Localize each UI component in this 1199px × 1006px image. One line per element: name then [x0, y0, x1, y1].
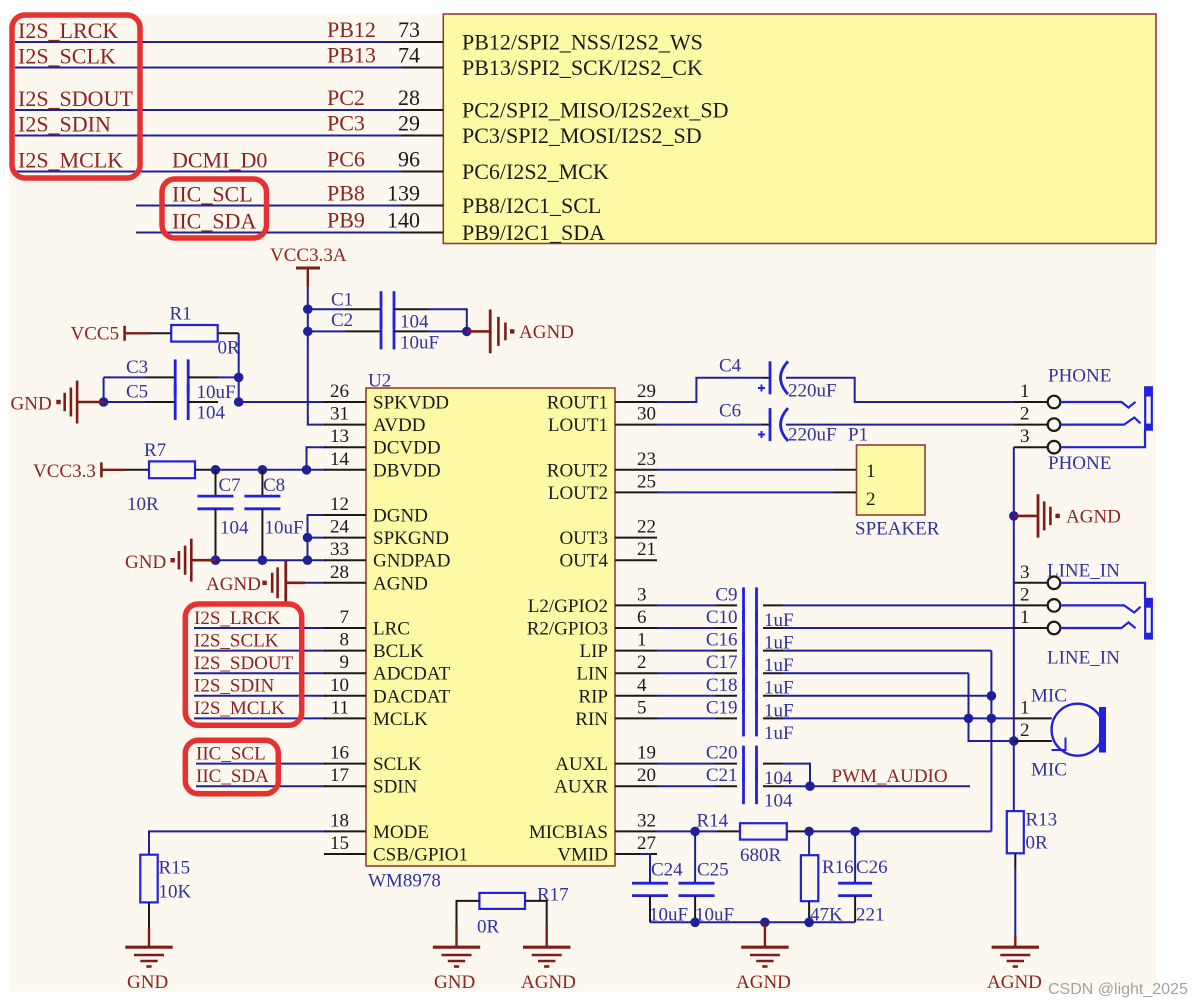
svg-text:GND: GND	[125, 552, 166, 573]
junction GND node	[99, 397, 109, 407]
resistor R7	[125, 440, 216, 515]
svg-text:30: 30	[637, 404, 656, 425]
junction C25 top	[690, 827, 700, 837]
svg-text:AGND: AGND	[1066, 507, 1121, 528]
svg-text:C5: C5	[126, 382, 148, 403]
svg-text:R17: R17	[537, 885, 569, 906]
pin name label PC6	[327, 147, 365, 172]
pin 28 AGND (U2 left)	[324, 562, 428, 595]
svg-text:PB12/SPI2_NSS/I2S2_WS: PB12/SPI2_NSS/I2S2_WS	[462, 30, 703, 55]
svg-text:RIN: RIN	[575, 709, 608, 730]
pin 4 RIP (U2 right)	[578, 675, 657, 708]
wire cap row 9	[783, 604, 1014, 606]
wire PWM_AUDIO	[783, 785, 970, 787]
pin 9 ADCDAT (U2 left)	[324, 652, 450, 685]
junction C1 left	[303, 304, 313, 314]
red highlight box (IIC chip side)	[185, 740, 278, 794]
ground AGND (R17)	[523, 946, 570, 949]
svg-text:C9: C9	[715, 584, 737, 605]
capacitor C3	[104, 357, 239, 395]
pin 28 (PC2/SPI2_MISO/I2S2ext_SD)	[398, 85, 729, 123]
svg-text:R7: R7	[144, 440, 166, 461]
svg-text:31: 31	[330, 404, 349, 425]
junction R7 node b	[258, 465, 268, 475]
svg-text:LIP: LIP	[580, 641, 609, 662]
svg-text:CSB/GPIO1: CSB/GPIO1	[373, 845, 468, 866]
wire net row PB13	[15, 67, 401, 69]
junction SPKGND	[303, 533, 313, 543]
wire R1 to C3/C5 node	[238, 333, 240, 402]
svg-text:PB8/I2C1_SCL: PB8/I2C1_SCL	[462, 193, 601, 218]
svg-text:104: 104	[220, 518, 249, 539]
ground GND (below C7/C8)	[125, 539, 216, 582]
wire R15 to ground	[148, 902, 150, 946]
wire net row PB8	[136, 205, 401, 207]
svg-text:33: 33	[330, 539, 349, 560]
resistor R17 (0R)	[477, 885, 569, 938]
svg-text:C25: C25	[697, 860, 729, 881]
svg-text:SPKGND: SPKGND	[373, 528, 449, 549]
svg-text:C1: C1	[331, 290, 353, 311]
svg-text:12: 12	[330, 494, 349, 515]
svg-text:220uF: 220uF	[788, 381, 837, 402]
svg-text:1: 1	[1020, 381, 1030, 402]
op-chip U2 WM8978 body	[366, 371, 615, 892]
svg-text:9: 9	[340, 652, 350, 673]
pin 17 SDIN (U2 left)	[324, 765, 418, 798]
svg-text:8: 8	[340, 630, 350, 651]
svg-text:18: 18	[330, 810, 349, 831]
net label IIC_SCL (chip side)	[196, 743, 266, 764]
svg-text:C26: C26	[856, 857, 888, 878]
svg-text:PB12: PB12	[327, 17, 376, 42]
pin 23 ROUT2 (U2 right)	[547, 449, 657, 482]
wire cap row 10	[783, 627, 1014, 629]
svg-text:PB13: PB13	[327, 43, 376, 68]
svg-text:PHONE: PHONE	[1048, 366, 1111, 387]
svg-text:DCVDD: DCVDD	[373, 438, 441, 459]
svg-text:LOUT2: LOUT2	[548, 483, 608, 504]
svg-text:104: 104	[400, 312, 429, 333]
junction RIN a	[964, 714, 974, 724]
svg-text:R2/GPIO3: R2/GPIO3	[527, 619, 608, 640]
svg-text:10uF: 10uF	[197, 382, 236, 403]
wire SPKGND stub	[308, 537, 327, 539]
svg-text:PC2/SPI2_MISO/I2S2ext_SD: PC2/SPI2_MISO/I2S2ext_SD	[462, 98, 729, 123]
svg-text:C17: C17	[706, 652, 738, 673]
svg-text:C18: C18	[706, 675, 738, 696]
svg-text:ADCDAT: ADCDAT	[373, 664, 450, 685]
svg-text:DBVDD: DBVDD	[373, 460, 441, 481]
svg-text:29: 29	[398, 111, 420, 136]
wire bias bottom row	[650, 921, 855, 923]
wire cap row 11	[783, 650, 991, 652]
svg-text:IIC_SCL: IIC_SCL	[196, 743, 266, 764]
svg-text:1uF: 1uF	[764, 723, 794, 744]
svg-text:I2S_MCLK: I2S_MCLK	[194, 698, 285, 719]
wire I2S_SDOUT	[194, 672, 326, 674]
wire MICBIAS right	[809, 830, 991, 832]
wire C20 to PWM node	[783, 764, 810, 787]
wire GNDPAD row	[216, 559, 327, 561]
svg-text:PC6: PC6	[327, 147, 365, 172]
svg-text:C19: C19	[706, 697, 738, 718]
junction R7 node a	[211, 465, 221, 475]
svg-text:10R: 10R	[127, 494, 159, 515]
svg-text:AGND: AGND	[736, 972, 791, 993]
resistor R15	[140, 855, 191, 903]
svg-text:AGND: AGND	[987, 972, 1042, 993]
svg-text:ROUT2: ROUT2	[547, 460, 608, 481]
svg-text:LOUT1: LOUT1	[548, 415, 608, 436]
svg-text:PB8: PB8	[327, 181, 365, 206]
capacitor C2	[308, 310, 428, 350]
wire IIC_SDA	[196, 785, 326, 787]
wire MICBIAS left	[657, 830, 695, 832]
svg-text:MODE: MODE	[373, 822, 429, 843]
svg-text:C20: C20	[706, 743, 738, 764]
red highlight box (I2S chip side)	[185, 604, 301, 725]
svg-text:C21: C21	[706, 765, 738, 786]
svg-text:R15: R15	[159, 858, 191, 879]
pin 29 (PC3/SPI2_MOSI/I2S2_SD)	[398, 111, 702, 149]
junction bottom AGND	[760, 918, 770, 928]
junction R16 top	[804, 827, 814, 837]
svg-text:VCC5: VCC5	[71, 324, 120, 345]
junction C26 top	[850, 827, 860, 837]
wire cap row 13	[783, 695, 991, 697]
svg-text:PC3/SPI2_MOSI/I2S2_SD: PC3/SPI2_MOSI/I2S2_SD	[462, 123, 702, 148]
svg-text:AGND: AGND	[206, 574, 261, 595]
wire IIC_SCL	[196, 763, 326, 765]
junction PWM	[805, 781, 815, 791]
svg-text:3: 3	[1020, 562, 1030, 583]
svg-text:PC2: PC2	[327, 85, 365, 110]
pin 26 SPKVDD (U2 left)	[324, 381, 449, 414]
pin 7 LRC (U2 left)	[324, 607, 410, 640]
svg-text:23: 23	[637, 449, 656, 470]
svg-text:MCLK: MCLK	[373, 709, 428, 730]
svg-text:PWM_AUDIO: PWM_AUDIO	[832, 766, 948, 787]
wire I2S_MCLK	[194, 717, 326, 719]
mic pin 2	[1014, 720, 1052, 741]
pin 29 ROUT1 (U2 right)	[547, 381, 657, 414]
pin 20 AUXR (U2 right)	[554, 765, 657, 798]
wire net row PC3	[15, 135, 401, 137]
connector P1 SPEAKER	[848, 425, 940, 540]
svg-text:R1: R1	[170, 304, 192, 325]
capacitor C26 (221)	[838, 831, 888, 925]
wire PHONE3/LINEIN3 vertical	[1013, 447, 1015, 811]
svg-text:28: 28	[330, 562, 349, 583]
svg-text:PB9: PB9	[327, 208, 365, 233]
wire AGND pin stub	[305, 582, 326, 584]
svg-text:WM8978: WM8978	[368, 871, 441, 892]
wire DBVDD row	[216, 469, 327, 471]
svg-text:1: 1	[1020, 697, 1030, 718]
ground AGND (by C1/C2)	[467, 310, 574, 354]
svg-text:SDIN: SDIN	[373, 777, 418, 798]
capacitor C21 (104)	[657, 765, 793, 812]
svg-text:RIP: RIP	[578, 686, 608, 707]
svg-text:10: 10	[330, 675, 349, 696]
svg-text:7: 7	[340, 607, 350, 628]
svg-text:GND: GND	[11, 394, 52, 415]
svg-text:15: 15	[330, 833, 349, 854]
svg-text:IIC_SCL: IIC_SCL	[172, 182, 253, 207]
svg-text:L2/GPIO2: L2/GPIO2	[528, 596, 608, 617]
svg-text:SCLK: SCLK	[373, 754, 422, 775]
svg-text:GNDPAD: GNDPAD	[373, 551, 450, 572]
wire DGND/SPKGND bracket	[308, 515, 327, 560]
junction bottom R16	[804, 918, 814, 928]
pin name label PC2	[327, 85, 365, 110]
red highlight box (I2S signals top)	[12, 15, 140, 178]
svg-text:I2S_MCLK: I2S_MCLK	[18, 148, 123, 173]
wire ROUT1 to C4	[657, 378, 762, 402]
resistor R14 (680R)	[695, 810, 809, 866]
svg-text:LIN: LIN	[576, 664, 608, 685]
capacitor C16 (1uF)	[657, 630, 794, 677]
svg-text:20: 20	[637, 765, 656, 786]
MCU port block (STM32 pins)	[443, 14, 1156, 244]
ground GND (left of C3/C5)	[11, 381, 104, 424]
pin 27 VMID (U2 right)	[557, 833, 657, 866]
wire branch to DCVDD	[307, 447, 327, 470]
jack PHONE contacts	[1060, 402, 1145, 447]
capacitor C17 (1uF)	[657, 652, 794, 699]
svg-text:PC6/I2S2_MCK: PC6/I2S2_MCK	[462, 159, 609, 184]
wire R17 left leg	[457, 901, 480, 947]
svg-text:221: 221	[856, 905, 885, 926]
net label I2S_SCLK (chip side)	[194, 630, 279, 651]
svg-text:0R: 0R	[218, 338, 241, 359]
pin 2 LIN (U2 right)	[576, 652, 657, 685]
svg-text:AGND: AGND	[521, 972, 576, 993]
svg-text:16: 16	[330, 743, 349, 764]
junction AGND tap	[1009, 511, 1019, 521]
pin 74 (PB13/SPI2_SCK/I2S2_CK)	[398, 43, 703, 81]
svg-text:OUT4: OUT4	[559, 551, 608, 572]
ground GND (R15)	[125, 946, 172, 949]
junction C2 left	[303, 327, 313, 337]
capacitor C9 (1uF)	[657, 584, 794, 631]
svg-text:220uF: 220uF	[788, 425, 837, 446]
svg-text:74: 74	[398, 43, 420, 68]
jack LINE_IN contacts	[1060, 583, 1145, 628]
wire I2S_SCLK	[194, 650, 326, 652]
net label I2S_SCLK	[18, 44, 116, 69]
pin name label PB8	[327, 181, 365, 206]
svg-text:19: 19	[637, 743, 656, 764]
pin 15 CSB/GPIO1 (U2 left)	[324, 833, 468, 866]
svg-text:139: 139	[387, 181, 420, 206]
wire net row PB9	[136, 232, 401, 234]
svg-text:AUXL: AUXL	[555, 754, 608, 775]
svg-text:AVDD: AVDD	[373, 415, 425, 436]
svg-text:SPKVDD: SPKVDD	[373, 393, 449, 414]
pin 31 AVDD (U2 left)	[324, 404, 425, 437]
svg-text:10uF: 10uF	[265, 518, 304, 539]
power VCC5	[71, 324, 151, 345]
net label I2S_MCLK	[18, 148, 123, 173]
svg-text:DCMI_D0: DCMI_D0	[172, 148, 267, 173]
wire cap row 14	[783, 717, 1014, 719]
pin 18 MODE (U2 left)	[324, 810, 429, 843]
svg-text:U2: U2	[368, 371, 391, 392]
pin 10 DACDAT (U2 left)	[324, 675, 450, 708]
svg-text:22: 22	[637, 517, 656, 538]
wire LOUT1 row	[657, 424, 762, 426]
pin 5 RIN (U2 right)	[575, 697, 657, 730]
svg-text:I2S_SCLK: I2S_SCLK	[18, 44, 116, 69]
wire net row PC2	[15, 109, 401, 111]
net label I2S_SDIN (chip side)	[194, 676, 275, 697]
pin 24 SPKGND (U2 left)	[324, 517, 449, 550]
svg-text:OUT3: OUT3	[559, 528, 608, 549]
jack LINE_IN pin 1	[1014, 607, 1060, 634]
pin 14 DBVDD (U2 left)	[324, 449, 441, 482]
svg-text:2: 2	[1020, 720, 1030, 741]
wire I2S_SDIN	[194, 695, 326, 697]
capacitor C20 (104)	[657, 743, 793, 790]
capacitor C5	[104, 382, 218, 421]
pin 73 (PB12/SPI2_NSS/I2S2_WS)	[398, 17, 703, 55]
svg-text:C10: C10	[706, 607, 738, 628]
svg-text:2: 2	[866, 489, 876, 510]
pin 30 LOUT1 (U2 right)	[548, 404, 657, 437]
pin 6 R2/GPIO3 (U2 right)	[527, 607, 657, 640]
svg-text:C24: C24	[651, 860, 683, 881]
svg-text:R16: R16	[822, 857, 854, 878]
svg-text:C2: C2	[331, 310, 353, 331]
net label I2S_SDIN	[18, 112, 111, 137]
svg-text:LRC: LRC	[373, 619, 410, 640]
capacitor C18 (1uF)	[657, 675, 794, 722]
svg-text:AGND: AGND	[373, 573, 428, 594]
svg-text:17: 17	[330, 765, 349, 786]
svg-text:I2S_SDOUT: I2S_SDOUT	[18, 86, 133, 111]
svg-text:140: 140	[387, 208, 420, 233]
ground GND (R17)	[433, 946, 480, 949]
svg-text:27: 27	[637, 833, 656, 854]
svg-text:I2S_SDIN: I2S_SDIN	[18, 112, 111, 137]
svg-text:96: 96	[398, 147, 420, 172]
wire net row PB12	[15, 41, 401, 43]
jack LINE_IN pin 2	[1014, 584, 1060, 611]
svg-text:10uF: 10uF	[400, 333, 439, 354]
svg-text:10K: 10K	[159, 882, 192, 903]
net label I2S_LRCK	[18, 18, 118, 43]
svg-text:13: 13	[330, 426, 349, 447]
svg-text:21: 21	[637, 539, 656, 560]
svg-text:BCLK: BCLK	[373, 641, 424, 662]
junction C1C2 right	[462, 327, 472, 337]
wire VCC3.3A vertical to AVDD	[308, 287, 326, 425]
pin 19 AUXL (U2 right)	[555, 743, 657, 776]
svg-text:11: 11	[331, 697, 349, 718]
svg-text:LINE_IN: LINE_IN	[1047, 648, 1120, 669]
pin 21 OUT4 (U2 right)	[559, 539, 657, 572]
capacitor C10 (1uF)	[657, 607, 794, 654]
jack PHONE pin 2	[1014, 404, 1061, 431]
svg-text:I2S_LRCK: I2S_LRCK	[18, 18, 118, 43]
junction GNDPAD c8	[258, 555, 268, 565]
svg-text:VMID: VMID	[557, 845, 608, 866]
svg-text:PB13/SPI2_SCK/I2S2_CK: PB13/SPI2_SCK/I2S2_CK	[462, 55, 703, 80]
mic pin 1	[1014, 697, 1052, 718]
ground AGND (pin 28)	[206, 561, 305, 604]
svg-text:28: 28	[398, 85, 420, 110]
pin 3 L2/GPIO2 (U2 right)	[528, 584, 657, 617]
mic MIC symbol	[1052, 704, 1107, 756]
svg-text:CSDN @light_2025: CSDN @light_2025	[1048, 981, 1188, 998]
wire C1/C2 right node	[428, 309, 467, 331]
svg-text:IIC_SDA: IIC_SDA	[196, 766, 269, 787]
pin 1 LIP (U2 right)	[580, 630, 658, 663]
svg-text:C6: C6	[719, 401, 741, 422]
svg-text:104: 104	[764, 791, 793, 812]
pin 11 MCLK (U2 left)	[324, 697, 428, 730]
svg-text:C16: C16	[706, 630, 738, 651]
wire C4 to PHONE 1	[786, 378, 1014, 402]
junction C5 row	[234, 397, 244, 407]
pin 25 LOUT2 (U2 right)	[548, 471, 657, 504]
capacitor C4 (220uF polarized)	[719, 356, 837, 402]
junction RIP	[987, 691, 997, 701]
jack LINE_IN sleeve	[1144, 599, 1153, 639]
jack PHONE pin 1	[1014, 381, 1061, 408]
wire VMID down	[615, 854, 650, 883]
svg-text:0R: 0R	[477, 917, 500, 938]
capacitor C1	[308, 290, 428, 328]
svg-text:GND: GND	[434, 972, 475, 993]
svg-text:I2S_SDIN: I2S_SDIN	[194, 676, 275, 697]
wire LIP branch vertical	[990, 651, 992, 832]
pin name label PB12	[327, 17, 376, 42]
ground AGND (jack)	[1014, 494, 1121, 537]
svg-text:I2S_SCLK: I2S_SCLK	[194, 630, 279, 651]
pin name label PB13	[327, 43, 376, 68]
svg-text:3: 3	[1020, 426, 1030, 447]
resistor R1	[150, 304, 240, 359]
svg-text:PB9/I2C1_SDA: PB9/I2C1_SDA	[462, 220, 605, 245]
power VCC3.3	[33, 461, 125, 482]
svg-text:24: 24	[330, 517, 350, 538]
svg-text:14: 14	[330, 449, 350, 470]
pin 139 (PB8/I2C1_SCL)	[387, 181, 601, 219]
svg-text:1: 1	[866, 461, 876, 482]
svg-text:P1: P1	[848, 425, 868, 446]
net label I2S_MCLK (chip side)	[194, 698, 285, 719]
svg-text:PC3: PC3	[327, 111, 365, 136]
svg-text:3: 3	[637, 584, 647, 605]
svg-text:I2S_LRCK: I2S_LRCK	[194, 608, 281, 629]
wire C3/C5 left node	[103, 377, 105, 402]
capacitor C8	[244, 470, 303, 560]
wire net row PC6	[15, 171, 401, 173]
wire SPKVDD row	[239, 401, 326, 403]
svg-text:AGND: AGND	[519, 322, 574, 343]
wire R13 to ground	[1014, 853, 1016, 946]
pin 13 DCVDD (U2 left)	[324, 426, 441, 459]
svg-text:SPEAKER: SPEAKER	[855, 519, 940, 540]
junction GNDPAD c7	[211, 555, 221, 565]
svg-text:DACDAT: DACDAT	[373, 686, 450, 707]
junction RIN b	[987, 714, 997, 724]
pin name label PB9	[327, 208, 365, 233]
junction MIC2	[1009, 736, 1019, 746]
